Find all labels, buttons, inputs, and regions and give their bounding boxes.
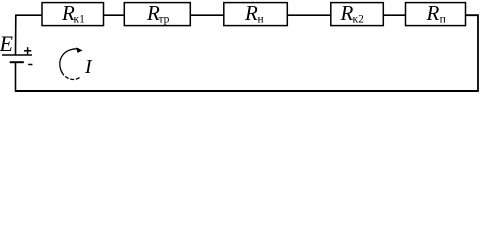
svg-text:н: н [258, 14, 264, 26]
label minus [28, 64, 32, 66]
wire right side: Rп to bottom rail [466, 15, 479, 91]
svg-text:I: I [84, 56, 93, 78]
EMF source E: short plate [10, 61, 24, 63]
svg-text:R: R [244, 1, 258, 25]
svg-text:тр: тр [159, 14, 170, 26]
svg-text:R: R [426, 1, 440, 25]
resistor Rп [406, 1, 466, 26]
resistor Rтр [124, 1, 190, 26]
current arrow arc solid part [60, 49, 79, 75]
wire battery stem to bottom rail [15, 62, 17, 92]
wire Rн to Rк2 [287, 14, 330, 16]
wire Rк1 to Rтр [104, 14, 124, 16]
svg-text:E: E [0, 31, 14, 56]
resistor Rн [224, 1, 287, 26]
resistor Rк2 [331, 1, 384, 26]
svg-text:к2: к2 [353, 14, 365, 26]
wire Rк2 to Rп [383, 14, 405, 16]
svg-text:R: R [340, 1, 354, 25]
svg-text:к1: к1 [74, 14, 86, 26]
wire Rтр to Rн [190, 14, 223, 16]
wire bottom rail [15, 90, 479, 92]
EMF source E: long plate [2, 54, 32, 56]
label plus [24, 47, 31, 54]
wire top-left from source to R_k1 [16, 15, 42, 55]
current arrowhead [76, 47, 82, 53]
resistor Rк1 [42, 1, 104, 26]
current arrow arc dashed part [65, 76, 79, 79]
svg-text:п: п [440, 14, 446, 26]
